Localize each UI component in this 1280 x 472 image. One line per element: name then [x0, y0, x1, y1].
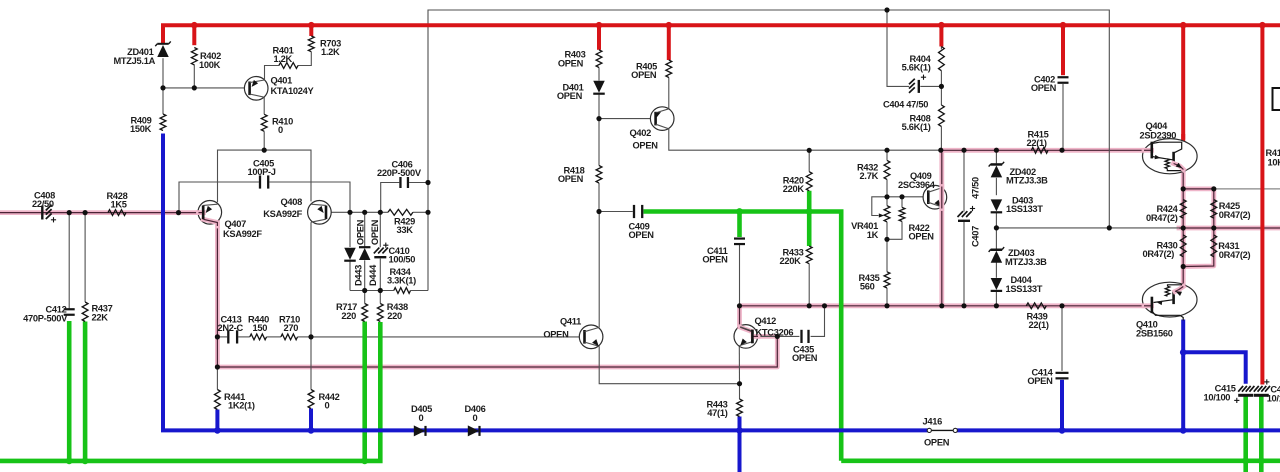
svg-text:150K: 150K [130, 124, 152, 134]
wire Q412 base lead to C435 tap [754, 335, 777, 337]
resistor R443 [737, 399, 743, 416]
wire C412 top lead x=69.2 [68, 213, 70, 309]
junction dots pink rail y=150.2 right [961, 148, 966, 153]
junction dot blue Q410 collector corner [1180, 349, 1187, 356]
svg-text:1K5: 1K5 [111, 199, 127, 209]
wire green C412 drop [67, 321, 72, 461]
capacitor C408 (polarized) [41, 206, 43, 220]
svg-text:2SB1560: 2SB1560 [1136, 329, 1173, 339]
wire C410 column x=380.3 [379, 212, 381, 247]
svg-text:MTZJ3.3B: MTZJ3.3B [1006, 176, 1048, 186]
svg-text:1SS133T: 1SS133T [1006, 204, 1043, 214]
transistor Q412 KTC3206 (NPN, mirrored) [734, 325, 758, 349]
transistor Q408 KSA992F (PNP, mirrored) [308, 201, 332, 225]
resistor R440 [250, 334, 267, 340]
svg-text:0: 0 [278, 125, 283, 135]
resistor R415 [1031, 147, 1048, 153]
wire top feedback run y=9 from x=428 to x=1109 [428, 10, 1109, 291]
resistor R442 [308, 390, 314, 409]
resistor R439 [1026, 303, 1046, 309]
wire bottom row y=290.5 with R434 [350, 290, 394, 292]
wire blue negative rail riser x=163 [161, 134, 165, 431]
wire green R420 to R433 column x=809.2 [807, 191, 812, 246]
capacitor C414 OPEN [1056, 372, 1069, 374]
wire blue R443 bottom lead and drop to bottom edge [738, 417, 742, 472]
wire C407 column x=964 [963, 150, 965, 211]
svg-text:Q411: Q411 [560, 317, 581, 327]
svg-text:47/50: 47/50 [971, 177, 981, 199]
wire blue bus y=430.4 left part [161, 428, 928, 432]
resistor R429 [388, 209, 413, 215]
svg-text:3.3K(1): 3.3K(1) [387, 276, 416, 286]
resistor R425 [1211, 200, 1217, 219]
svg-text:560: 560 [860, 282, 875, 292]
wire diode D444 column x=364.7 [364, 212, 366, 246]
wire R438 top lead [379, 291, 381, 304]
wire Q412 emitter drop [738, 345, 740, 384]
diode D405 on blue bus [414, 425, 425, 436]
svg-text:10K: 10K [1268, 157, 1280, 167]
svg-text:220P-500V: 220P-500V [377, 168, 422, 178]
svg-text:OPEN: OPEN [924, 437, 950, 447]
diode D443 OPEN [344, 248, 356, 260]
wire ZD401 anode drop x=163 [162, 58, 164, 114]
diode D401 OPEN [593, 81, 605, 93]
svg-text:D443: D443 [353, 265, 363, 286]
svg-text:OPEN: OPEN [792, 353, 818, 363]
wire right emitter row y=188.9 (gray continuation) [1214, 188, 1280, 190]
svg-text:22(1): 22(1) [1027, 138, 1047, 148]
wire R443 leads x=739.5 [739, 384, 741, 399]
transistor Q409 2SC3964 (NPN) [923, 185, 947, 209]
junction dot pink corner y=367 [215, 364, 220, 369]
wire R402 drop x=190.5 [193, 65, 195, 88]
junction dot Q412 emitter node [737, 381, 742, 386]
wire red stub R703 [309, 25, 313, 36]
svg-text:1.2K: 1.2K [274, 54, 293, 64]
svg-text:OPEN: OPEN [543, 330, 569, 340]
svg-text:D444: D444 [368, 264, 378, 286]
resistor R438 [377, 304, 383, 322]
wire C402 bottom lead x=1063 [1062, 84, 1064, 150]
wire R418 column x=599 [598, 119, 600, 166]
svg-text:0: 0 [325, 401, 330, 411]
zener diode ZD403 [991, 249, 1003, 251]
junction dot C404 right [939, 84, 944, 89]
resistor R420 [806, 172, 812, 191]
junction dots output emitter network [1181, 186, 1186, 191]
zener diode ZD402 [991, 163, 1003, 165]
svg-text:Q402: Q402 [630, 128, 652, 138]
svg-text:0R47(2): 0R47(2) [1146, 213, 1178, 223]
resistor R434 [394, 288, 411, 294]
svg-text:OPEN: OPEN [370, 219, 380, 245]
svg-text:2SC3964: 2SC3964 [898, 180, 936, 190]
resistor R403 OPEN [596, 50, 602, 68]
wire C409 left lead [599, 211, 633, 213]
svg-text:220: 220 [341, 311, 356, 321]
wire green R717 drop [362, 322, 367, 461]
capacitor C402 OPEN [1058, 76, 1069, 78]
connector box at right edge [1273, 88, 1280, 110]
svg-text:270: 270 [284, 323, 299, 333]
transistor Q404 2SD2390 (NPN darlington) [1143, 139, 1198, 174]
resistor R402 [191, 48, 197, 65]
wire blue Q410 collector net [1181, 320, 1185, 431]
wire C405 left leg to Q407 base node [179, 182, 259, 213]
svg-text:J416: J416 [923, 416, 943, 426]
wire Q401 collector to R410 [263, 98, 265, 115]
junction dots red rail [191, 22, 198, 29]
wire C406 right leg [409, 182, 428, 184]
svg-text:KTA1024Y: KTA1024Y [271, 86, 315, 96]
transistor Q410 2SB1560 (PNP darlington) [1142, 282, 1197, 317]
resistor R422 OPEN [899, 207, 905, 221]
wire C414 top lead x=1062 [1061, 306, 1063, 371]
junction dots Q409 base row [884, 194, 889, 199]
capacitor C404 (polarized) [909, 87, 915, 93]
junction dots Q408 base row [347, 210, 352, 215]
svg-text:220K: 220K [779, 256, 801, 266]
wire blue C414 bottom lead [1060, 380, 1064, 431]
potentiometer VR401 [884, 206, 890, 222]
wire green signal net y=211.5 from C409 to x=840.6 and down to green bus [644, 212, 842, 461]
svg-text:100P-J: 100P-J [248, 167, 276, 177]
transistor Q407 KSA992F (PNP) [198, 201, 222, 225]
capacitor C405 [259, 175, 261, 188]
junction dots feedback row y=337.5 [215, 334, 220, 339]
wire green C416 bottom drop [1259, 396, 1264, 472]
wire Q408 collector drop x=311 to R442 [310, 222, 312, 389]
junction dots VAS row y=150 [807, 148, 812, 153]
capacitor C435 OPEN [800, 330, 802, 343]
junction dots green bus [66, 458, 73, 465]
svg-text:OPEN: OPEN [1027, 376, 1053, 386]
svg-text:220K: 220K [783, 184, 805, 194]
wire Q401 base row y=88.3 [163, 87, 245, 89]
wire green bus right segment y=460.8 [841, 458, 1280, 463]
wire red stub R403 [597, 25, 601, 50]
svg-text:OPEN: OPEN [631, 70, 657, 80]
svg-text:OPEN: OPEN [558, 58, 584, 68]
wire C404 tap from top run down x=887 [887, 10, 909, 86]
resistor R410 [261, 114, 267, 131]
junction dots green net [736, 208, 743, 215]
wire C435 leads [777, 335, 799, 337]
resistor R441 [214, 390, 220, 410]
junction dot C409 node [596, 209, 601, 214]
svg-text:1SS133T: 1SS133T [1006, 284, 1043, 294]
svg-text:1K: 1K [867, 230, 879, 240]
svg-text:C404 47/50: C404 47/50 [883, 99, 928, 109]
capacitor C407 (polarized) [958, 211, 964, 217]
capacitor C410 (polarized) [374, 248, 380, 254]
capacitor C406 [399, 177, 401, 188]
svg-text:C407: C407 [971, 226, 981, 247]
wire C406 left leg x=380.7 [381, 183, 400, 213]
svg-text:KSA992F: KSA992F [263, 209, 302, 219]
junction dots bottom diode row [362, 288, 367, 293]
svg-text:22(1): 22(1) [1029, 320, 1049, 330]
wire Q411 emitter run y=383.7 [599, 346, 739, 383]
wire green C415 bottom drop [1243, 396, 1248, 472]
zener diode ZD401 [157, 43, 169, 45]
wire +B red power rail y=25.2 [161, 23, 1280, 27]
svg-text:10/100: 10/100 [1204, 393, 1231, 403]
resistor R405 OPEN [666, 60, 672, 77]
svg-text:Q412: Q412 [755, 316, 777, 326]
resistor R431 [1211, 235, 1217, 257]
resistor R710 [281, 334, 298, 340]
wire green R437 drop [83, 322, 88, 461]
wire differential emitter row y=150.1 [218, 150, 312, 202]
wire Q408 base row y=212.3 with R429 [326, 211, 388, 213]
svg-text:33K: 33K [397, 225, 414, 235]
wire Q402 collector run y=150 to x=941.8 [669, 129, 942, 150]
wire Q409 base row y=196.8 [887, 196, 924, 198]
wire R401/R703 connections [265, 66, 279, 80]
svg-text:0R47(2): 0R47(2) [1219, 250, 1251, 260]
svg-text:100/50: 100/50 [389, 254, 416, 264]
wire R437 top lead x=85.1 [84, 213, 86, 302]
resistor J416 jumper OPEN [931, 429, 954, 431]
resistor R418 OPEN [596, 166, 602, 184]
wire R432 column x=887 [886, 150, 888, 160]
capacitor C412 [64, 308, 75, 310]
wire blue R442 bottom lead [309, 409, 313, 431]
capacitor C416 (polarized, clipped at right edge) [1254, 386, 1259, 392]
wire green C411 top lead [737, 212, 742, 238]
svg-text:MTZJ3.3B: MTZJ3.3B [1005, 257, 1047, 267]
wire ZD402/D403 column x=996.4 [995, 150, 997, 163]
junction dots pink drive rail y=305.8 [737, 303, 742, 308]
wire VR401 wiper link [872, 197, 887, 216]
svg-text:KSA992F: KSA992F [223, 229, 262, 239]
svg-text:100K: 100K [199, 60, 221, 70]
junction dot Q402 base [596, 116, 601, 121]
svg-text:Q408: Q408 [280, 197, 302, 207]
wire y=337.5 run to Q411 base [311, 336, 580, 338]
junction dots pink input rail [67, 210, 72, 215]
wire R410 bottom to differential row y=150.1 [263, 131, 265, 150]
wire Q407 collector feedback row: C413 R440 R710 y=337.5 [217, 336, 227, 338]
resistor R424 [1180, 200, 1186, 219]
svg-text:MTZJ5.1A: MTZJ5.1A [113, 56, 155, 66]
wire C411 bottom lead x=739.5 [739, 245, 741, 306]
junction dots Q401 base row [160, 85, 165, 90]
wire diode D443 column x=350 [349, 212, 351, 247]
wire red drop to output cap x=1261.8 [1260, 25, 1264, 384]
svg-text:1.2K: 1.2K [321, 47, 340, 57]
svg-text:Q401: Q401 [271, 76, 293, 86]
diode D444 OPEN [359, 248, 371, 260]
svg-text:OPEN: OPEN [1031, 83, 1057, 93]
wire pink highlighted: Q407 collector down x=217 and feedback run y=367 to Q412 base riser x=777 [217, 221, 777, 367]
junction dot VR401/R422 bottom [884, 237, 889, 242]
wire red stub C402 [1061, 25, 1065, 75]
svg-text:47(1): 47(1) [707, 408, 727, 418]
wire pink highlighted: VAS rail y=150 from x=941.8 to Q404 base, and Q409 collector-emitter drop x=941.8 [942, 150, 1152, 305]
wire R441 top lead x=217 [216, 367, 218, 390]
resistor R401 [279, 63, 298, 69]
wire pink highlighted net: input rail y=212 (left edge to Q407 base) [0, 210, 198, 215]
resistor R717 [362, 304, 368, 322]
resistor R435 [884, 272, 890, 288]
resistor R409 [160, 114, 166, 131]
wire red stub R405 [667, 25, 671, 60]
resistor R703 [308, 36, 314, 52]
transistor Q402 OPEN (NPN) [650, 107, 674, 131]
wire R435 leads x=887 [886, 239, 888, 271]
svg-text:470P-500V: 470P-500V [23, 313, 68, 323]
svg-text:2SD2390: 2SD2390 [1140, 130, 1177, 140]
junction dot R410 bottom [262, 148, 267, 153]
wire R717 top lead [364, 291, 366, 304]
svg-text:OPEN: OPEN [558, 174, 584, 184]
svg-text:OPEN: OPEN [557, 91, 583, 101]
svg-text:0: 0 [419, 413, 424, 423]
wire pink highlighted: output emitter network around R424/R425/R430/R431 [1183, 168, 1214, 228]
svg-text:KTC3206: KTC3206 [756, 327, 794, 337]
resistor R428 [108, 210, 126, 216]
transistor Q411 OPEN (NPN) [579, 325, 603, 349]
wire R433 bottom lead x=809.2 [808, 264, 810, 306]
svg-text:OPEN: OPEN [702, 255, 728, 265]
wire ZD403/D404 column x=996.4 [995, 228, 997, 249]
wire red stub R404 [939, 25, 943, 46]
svg-text:22/50: 22/50 [32, 199, 54, 209]
svg-text:0R47(2): 0R47(2) [1143, 249, 1175, 259]
diode D404 [991, 278, 1003, 290]
wire Q402 base row y=118.6 [599, 118, 650, 120]
capacitor C413 [227, 330, 229, 343]
junction dot C435 tap [775, 334, 780, 339]
wire R404/R408 column x=941.4 [940, 46, 942, 49]
transistor Q401 KTA1024Y (PNP) [244, 77, 268, 101]
svg-text:5.6K(1): 5.6K(1) [902, 63, 931, 73]
wire pink highlighted: drive rail y=306 from Q412 collector to Q410 base (x=1151) [740, 306, 1152, 326]
junction dot C406 right [425, 180, 430, 185]
svg-text:OPEN: OPEN [633, 141, 659, 151]
wire Q411 collector riser x=599.5 [598, 212, 600, 328]
resistor R437 [82, 302, 88, 322]
resistor R430 [1180, 235, 1186, 257]
resistor R433 [806, 246, 812, 264]
wire red stub R402 [192, 25, 196, 45]
wire green bus left segment y=460.9 [0, 322, 380, 461]
capacitor C409 OPEN [633, 205, 635, 218]
diode D406 on blue bus [468, 425, 479, 436]
junction dots diode mid node y=227.9 [994, 225, 999, 230]
wire y=227.9 cross-connect from diode column to output [996, 227, 1179, 229]
wire red stub ZD401 [161, 25, 165, 43]
wire R405 column x=668.8 [668, 78, 670, 109]
svg-text:2.7K: 2.7K [860, 171, 879, 181]
wire red stub Q404 collector [1181, 25, 1185, 141]
diode D403 [991, 199, 1003, 211]
svg-text:0R47(2): 0R47(2) [1219, 210, 1251, 220]
svg-text:0: 0 [473, 413, 478, 423]
svg-text:OPEN: OPEN [629, 230, 655, 240]
svg-text:220: 220 [387, 311, 402, 321]
resistor R404 [939, 47, 945, 71]
junction dot top run to C404 [884, 7, 889, 12]
svg-text:2N2-C: 2N2-C [218, 323, 244, 333]
svg-text:150: 150 [253, 323, 268, 333]
svg-text:OPEN: OPEN [356, 219, 366, 245]
resistor R432 [884, 160, 890, 179]
capacitor C411 OPEN [734, 237, 745, 239]
svg-text:5.6K(1): 5.6K(1) [902, 122, 931, 132]
capacitor C415 (polarized) [1238, 386, 1243, 392]
wire blue R441 bottom lead [215, 410, 219, 431]
svg-text:10/1: 10/1 [1267, 394, 1280, 404]
wire blue bus y=430.4 right part [957, 428, 1280, 432]
svg-text:Q407: Q407 [225, 219, 247, 229]
svg-text:1K2(1): 1K2(1) [228, 401, 255, 411]
wire R422 column x=902 [901, 197, 903, 208]
svg-text:22K: 22K [92, 313, 109, 323]
svg-text:OPEN: OPEN [909, 232, 935, 242]
wire VR401 bottom to R435 node [886, 222, 888, 239]
wire R420 top lead x=809.2 [808, 150, 810, 171]
junction dots blue bus [214, 427, 221, 434]
wire C405 right leg down to Q408 base node x=350 [269, 182, 350, 212]
wire R403 D401 column x=599 [598, 68, 600, 81]
resistor R408 [939, 105, 945, 126]
